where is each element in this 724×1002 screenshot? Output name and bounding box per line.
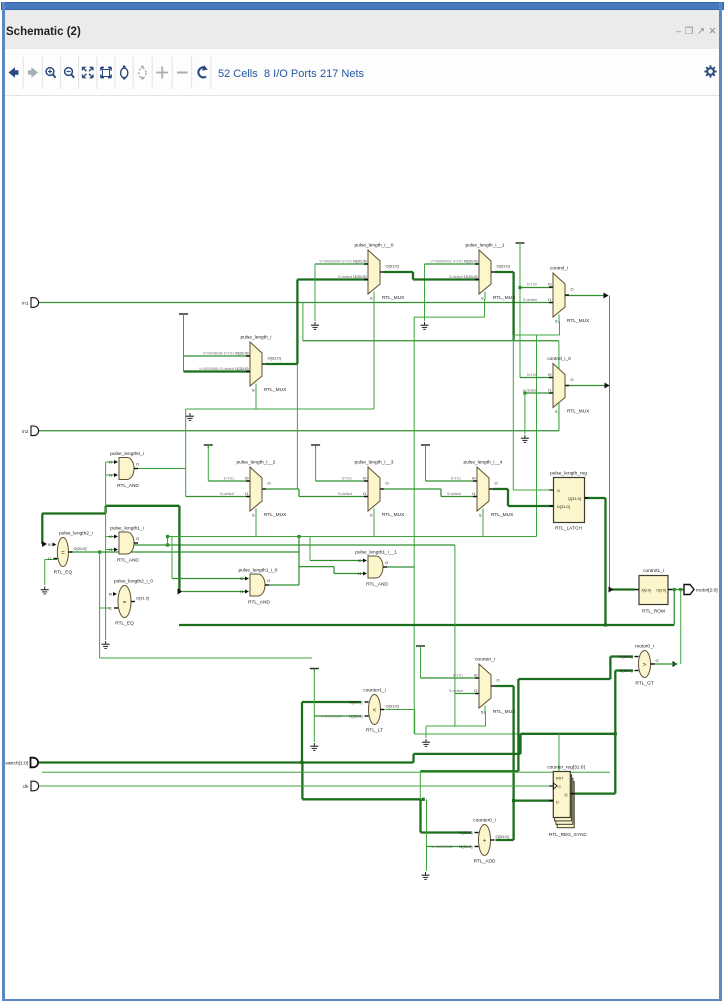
svg-text:pulse_length_i__1: pulse_length_i__1: [466, 243, 505, 249]
wire pulse_length_i__1 O bus: [495, 271, 514, 273]
wire LT I1: [314, 715, 361, 717]
junction arrow control_i_0 O: [605, 383, 610, 389]
wire x105.6 gnd drop: [105, 608, 107, 640]
wire S drop x513.3: [512, 335, 514, 490]
toolbar nets count text: [320, 68, 365, 80]
constant bar feeding pulse_length_i__4: [421, 445, 430, 448]
constant bar feeding pulse_length_i__2: [204, 445, 213, 448]
junction Q/bus y625: [604, 623, 607, 626]
svg-text:pulse_length2_i_0: pulse_length2_i_0: [114, 579, 153, 585]
svg-text:RTL_AND: RTL_AND: [248, 600, 270, 606]
wire const riser x425.5: [425, 445, 427, 481]
svg-text:O: O: [267, 578, 270, 583]
svg-text:in2: in2: [22, 429, 29, 435]
svg-text:I0[31:0]: I0[31:0]: [235, 351, 248, 356]
svg-text:I1: I1: [548, 388, 552, 393]
junction arrow GT O: [673, 661, 678, 667]
svg-text:O: O: [385, 560, 388, 565]
svg-text:O[31:0]: O[31:0]: [386, 704, 399, 709]
constant bar feeding counter_i: [416, 646, 425, 649]
wire clk horizontal: [37, 785, 553, 787]
wire step x299: [298, 489, 300, 497]
svg-text:S: S: [481, 710, 484, 715]
wire counter_reg Q out: [571, 792, 616, 794]
svg-text:pulse_length1_i__1: pulse_length1_i__1: [355, 550, 397, 556]
mux pulse_length_i__1: [430, 243, 516, 302]
wire mux1 S drop: [484, 299, 486, 317]
comparator motor0_i: [619, 644, 658, 687]
svg-text:RTL_MUX: RTL_MUX: [493, 709, 516, 715]
svg-text:control1_i: control1_i: [643, 568, 664, 574]
svg-text:S: S: [555, 409, 558, 414]
wire x302.4 down: [301, 763, 303, 800]
junction y799.3: [422, 798, 425, 801]
svg-text:S=1'b1: S=1'b1: [451, 477, 461, 481]
wire x99.6 drop: [99, 552, 101, 608]
svg-text:RTL_ADD: RTL_ADD: [474, 859, 496, 865]
wire pulse_length1_i I1 stub: [106, 549, 114, 551]
wire x297 riser row2: [296, 364, 298, 489]
wire pulse_length_i I1 bus: [184, 370, 251, 372]
wire control_i I0: [520, 287, 553, 289]
wire y536.5 long: [168, 536, 537, 538]
and-gate pulse_length1_i_0: [239, 568, 278, 606]
wire S row y317: [414, 316, 485, 318]
wire pulse_length_i S drop: [255, 387, 257, 410]
svg-text:pulse_length1_i: pulse_length1_i: [110, 526, 144, 532]
mux pulse_length_i__4: [447, 460, 514, 519]
wire long vertical x414: [413, 317, 415, 734]
constant bar feeding pulse_length_i__3: [311, 445, 320, 448]
svg-text:pulse_length_i__3: pulse_length_i__3: [355, 460, 394, 466]
svg-text:motor0_i: motor0_i: [635, 644, 654, 650]
svg-text:S=default: S=default: [338, 492, 352, 496]
wire x105.6 thin column: [105, 462, 107, 609]
svg-text:O: O: [268, 481, 271, 486]
toolbar autofit icon: [121, 65, 128, 79]
constant bar feeding LT I1: [310, 669, 319, 672]
svg-text:counter0_i: counter0_i: [473, 818, 495, 824]
rom control1_i: [635, 568, 672, 615]
register counter_reg[31:0]: [547, 765, 587, 839]
svg-text:I1: I1: [245, 491, 249, 496]
svg-text:<: <: [373, 707, 377, 714]
mux pulse_length_i__0: [319, 243, 405, 302]
wire y734 thin: [415, 733, 521, 735]
wire y772 long: [42, 771, 610, 773]
wire ADD I0: [421, 831, 472, 833]
wire control_i_0 S drop: [558, 412, 560, 431]
wire control_i O: [565, 295, 608, 297]
wire pulse_length0_i I0 stub: [106, 461, 114, 463]
wire y658 long: [100, 657, 312, 659]
svg-text:O[31:0]: O[31:0]: [496, 834, 509, 839]
wire pulse_length_i__2 O: [266, 488, 299, 490]
svg-text:RTL_REG_SYNC: RTL_REG_SYNC: [549, 832, 588, 838]
wire x172 stub: [171, 537, 173, 579]
wire main bus y625: [179, 624, 674, 626]
wire control_i_0 O: [565, 385, 609, 387]
toolbar cells count text: [218, 68, 258, 80]
port clk: [23, 781, 39, 791]
wire pulse_length_i__1 I0: [425, 263, 480, 265]
svg-text:RTL_AND: RTL_AND: [366, 582, 388, 588]
wire x99.3 riser: [99, 608, 101, 658]
svg-text:pulse_length_i__2: pulse_length_i__2: [237, 460, 276, 466]
wire control_i I1 stub segment: [549, 302, 553, 304]
wire control_i S drop: [559, 322, 561, 336]
mux control_i: [523, 266, 590, 325]
wire pulse_length_i__4 S: [482, 511, 484, 537]
svg-text:RTL_AND: RTL_AND: [117, 483, 139, 489]
wire pulse_length_i__3 O: [384, 488, 441, 490]
port motor[2:0]: [684, 585, 718, 595]
svg-text:I1: I1: [472, 491, 476, 496]
wire step x441: [440, 489, 442, 497]
svg-text:I1: I1: [363, 491, 367, 496]
junction ROM O a: [673, 588, 676, 591]
wire counter_i S: [485, 711, 487, 726]
svg-text:V=X00000X00 S=1'b1: V=X00000X00 S=1'b1: [319, 260, 352, 264]
svg-text:motor[2:0]: motor[2:0]: [696, 588, 718, 594]
svg-text:I0: I0: [548, 282, 552, 287]
svg-text:>: >: [643, 661, 647, 668]
wire pulse_length2_i I1 wire: [45, 559, 57, 561]
toolbar io ports count text: [264, 68, 317, 80]
wire counter_reg RST riser: [558, 734, 560, 772]
svg-text:I1: I1: [48, 556, 52, 561]
svg-text:S=1'b0: S=1'b0: [527, 283, 537, 287]
svg-text:I0: I0: [548, 372, 552, 377]
svg-text:I1[31:0]: I1[31:0]: [464, 274, 477, 279]
svg-text:I1[31:0]: I1[31:0]: [353, 274, 366, 279]
svg-text:O: O: [495, 481, 498, 486]
junction arrow pulse_length2_i I0: [42, 541, 47, 547]
svg-text:Q[31:0]: Q[31:0]: [568, 496, 581, 501]
wire pulse_length_i O bus: [266, 363, 297, 365]
svg-text:S=default: S=default: [523, 298, 537, 302]
wire drop x674.2 to bus: [673, 590, 675, 626]
mux counter_i: [449, 657, 516, 716]
svg-text:V=X0000A2A7: V=X0000A2A7: [321, 715, 343, 719]
svg-text:I0[31:0]: I0[31:0]: [349, 700, 362, 705]
wire S row y409: [186, 408, 374, 410]
wire drop x680.7: [680, 590, 682, 665]
wire pulse_length1_i__1 I0: [310, 560, 363, 562]
svg-text:O[31:0]: O[31:0]: [136, 596, 149, 601]
wire x518.4 up: [517, 679, 519, 771]
mux control_i_0: [523, 356, 590, 415]
wire GT I0 feed: [610, 655, 633, 657]
svg-text:counter1_i: counter1_i: [363, 688, 385, 694]
svg-text:O[31:0]: O[31:0]: [497, 264, 510, 269]
ground below LT I1: [310, 743, 318, 750]
wire step x334: [333, 567, 335, 574]
wire bus to pulse_length_i__0 I1: [297, 278, 368, 280]
wire ADD I0 drop: [419, 799, 421, 832]
wire Q net vertical x615.3: [614, 671, 616, 794]
wire GT I1 feed: [615, 669, 633, 671]
wire bus drop x42: [41, 514, 43, 545]
ground below pulse_length_i__1 I0: [421, 322, 429, 329]
wire bus to latch D: [508, 505, 554, 507]
toolbar zoom-out icon: [65, 68, 75, 78]
constant bar feeding pulse_length_i: [179, 314, 188, 317]
wire const riser x208.3: [207, 445, 209, 481]
junction a y536.5: [166, 535, 169, 538]
wire pulse_length_i__2 S: [255, 511, 257, 537]
svg-text:S: S: [479, 513, 482, 518]
wire riser x302.9: [302, 303, 304, 341]
toolbar settings gear icon: [704, 65, 716, 77]
svg-text:RTL_MUX: RTL_MUX: [567, 318, 590, 324]
wire Q branch y733.8: [521, 733, 616, 735]
wire pulse_length_i I0: [184, 355, 251, 357]
ground near x188 y414: [186, 413, 194, 420]
window top blue bar: [1, 2, 724, 10]
wire bus A y505.8: [106, 505, 180, 507]
junction arrow ROM A feed: [609, 587, 614, 593]
svg-text:I1[31:0]: I1[31:0]: [619, 668, 632, 673]
and-gate pulse_length1_i: [109, 526, 144, 564]
svg-text:S: S: [252, 388, 255, 393]
svg-text:RST: RST: [556, 777, 564, 781]
toolbar zoom-in icon: [46, 68, 56, 78]
wire pulse_length_i__4 O bus: [493, 488, 508, 490]
junction switch x302: [300, 761, 303, 764]
svg-text:pulse_length1_i_0: pulse_length1_i_0: [239, 568, 278, 574]
svg-text:O[31:0]: O[31:0]: [386, 264, 399, 269]
svg-text:O: O: [571, 287, 574, 292]
svg-text:RTL_MUX: RTL_MUX: [493, 295, 516, 301]
wire pulse_length1_i I0 stub: [106, 536, 114, 538]
wire pulse_length1_i_0 I1: [183, 591, 246, 593]
svg-text:I1[31:0]: I1[31:0]: [459, 844, 472, 849]
svg-text:C: C: [559, 785, 562, 789]
wire x167.5 stub: [167, 537, 169, 546]
wire bus B y513.5: [42, 512, 106, 514]
svg-text:S=1'b0: S=1'b0: [527, 373, 537, 377]
svg-text:pulse_length_i__4: pulse_length_i__4: [464, 460, 503, 466]
svg-text:I1: I1: [474, 688, 478, 693]
svg-text:O: O: [136, 462, 139, 467]
svg-text:S=default: S=default: [523, 389, 537, 393]
wire latch Q bus: [585, 497, 606, 499]
svg-text:S=default: S=default: [447, 492, 461, 496]
svg-text:pulse_length_reg: pulse_length_reg: [550, 471, 587, 477]
wire y566.6: [299, 566, 334, 568]
svg-text:I0[31:0]: I0[31:0]: [619, 654, 632, 659]
svg-text:V=X000DB64 S=default: V=X000DB64 S=default: [199, 367, 234, 371]
wire drop x558.9: [558, 341, 560, 431]
adder counter0_i: [432, 818, 509, 865]
svg-text:I0[31:0]: I0[31:0]: [353, 259, 366, 264]
wire LT I0 bus: [302, 701, 361, 703]
wire switch bus: [37, 761, 414, 763]
svg-text:A[3:0]: A[3:0]: [642, 588, 651, 592]
wire const riser x315.6: [315, 445, 317, 481]
toolbar separators: [23, 57, 211, 89]
wire pulse_length_i__0 O bus: [384, 271, 413, 273]
wire pulse_length_i__0 I0: [315, 263, 368, 265]
wire riser x299: [298, 537, 300, 586]
wire gnd riser x315: [314, 264, 316, 321]
toolbar forward arrow icon: [28, 67, 38, 78]
svg-text:pulse_length_i__0: pulse_length_i__0: [355, 243, 394, 249]
wire Q branch down x520.5: [519, 734, 521, 754]
wire LT I1 riser: [313, 669, 315, 743]
wire const riser x420.5: [420, 646, 422, 678]
port in1: [22, 298, 39, 308]
wire pulse_length2_i_0 I1 feed: [100, 607, 110, 609]
svg-text:RTL_MUX: RTL_MUX: [264, 387, 287, 393]
comparator pulse_length2_i_0: [109, 579, 154, 627]
junction x513.6 y800.6: [512, 799, 515, 802]
svg-text:pulse_length2_i: pulse_length2_i: [59, 531, 93, 537]
wire vertical net x609.5: [609, 296, 611, 590]
svg-text:O: O: [136, 536, 139, 541]
wire counter_i O bus: [495, 685, 514, 687]
window left border: [2, 2, 5, 999]
wire y726: [426, 725, 486, 727]
wire const riser x183.5: [183, 314, 185, 372]
svg-text:I0: I0: [363, 476, 367, 481]
svg-text:I0: I0: [48, 542, 52, 547]
svg-text:pulse_length0_i: pulse_length0_i: [110, 451, 144, 457]
svg-text:I0: I0: [109, 592, 113, 597]
wire bus down x513.6: [512, 272, 514, 341]
wire bus step x508: [507, 489, 509, 506]
svg-text:O[31:0]: O[31:0]: [268, 356, 281, 361]
ground below counter_i: [422, 739, 430, 746]
svg-text:Q: Q: [564, 792, 567, 797]
ground below pulse_length2_i_0 I1: [102, 641, 110, 648]
svg-text:RTL_AND: RTL_AND: [117, 558, 139, 564]
svg-text:RTL_MUX: RTL_MUX: [567, 409, 590, 415]
svg-text:I0[31:0]: I0[31:0]: [464, 259, 477, 264]
svg-text:=: =: [123, 599, 127, 606]
wire x610.4 up: [609, 657, 611, 680]
svg-text:RTL_EQ: RTL_EQ: [115, 621, 134, 627]
and-gate pulse_length0_i: [109, 451, 144, 489]
port switch[1:0]: [5, 758, 38, 768]
wire ROM O to port: [668, 589, 684, 591]
wire S bridge y335: [513, 334, 559, 336]
mux pulse_length_i: [199, 335, 287, 394]
junction control_i_0 I1: [523, 391, 526, 394]
comparator pulse_length2_i: [48, 531, 93, 576]
svg-text:RTL_MUX: RTL_MUX: [382, 295, 405, 301]
wire ADD I1: [427, 846, 472, 848]
svg-text:control_i_0: control_i_0: [547, 356, 571, 362]
toolbar fit-selection icon: [101, 67, 111, 77]
wire in1 to control_i I1 (horizontal): [37, 302, 549, 304]
wire GT O: [651, 663, 678, 665]
svg-text:O: O: [571, 377, 574, 382]
svg-text:I1: I1: [109, 606, 113, 611]
wire step x413.5: [412, 754, 414, 763]
junction arrow pulse_length1_i_0 I1: [178, 589, 183, 595]
wire gnd riser x424.5: [424, 264, 426, 321]
toolbar minus icon: [177, 72, 188, 74]
window right border: [719, 2, 722, 999]
wire riser x297.4 bus: [296, 280, 298, 365]
svg-text:S: S: [555, 319, 558, 324]
junction control_i I0: [518, 286, 521, 289]
svg-text:D[31:0]: D[31:0]: [557, 504, 570, 509]
and-gate pulse_length1_i__1: [355, 550, 397, 588]
wire y799.3 bus: [302, 798, 420, 800]
svg-text:O: O: [656, 658, 659, 663]
svg-text:S: S: [370, 513, 373, 518]
svg-text:RTL_LATCH: RTL_LATCH: [555, 526, 583, 532]
wire control_i_0 I0: [520, 377, 553, 379]
svg-text:I0[31:0]: I0[31:0]: [459, 830, 472, 835]
svg-text:=: =: [61, 549, 65, 556]
svg-text:D: D: [556, 801, 559, 805]
wire pulse_length0_i O: [135, 468, 187, 470]
junction Q net y733.8: [614, 732, 617, 735]
wire pulse_length1_i__1 I1: [334, 573, 363, 575]
svg-text:counter_i: counter_i: [475, 657, 495, 663]
comparator counter1_i: [321, 688, 399, 734]
svg-text:O: O: [497, 678, 500, 683]
junction arrow control_i O: [604, 293, 609, 299]
svg-text:S: S: [252, 513, 255, 518]
wire reg D feed: [514, 799, 554, 801]
wire pulse_length1_i O: [135, 544, 455, 546]
svg-text:O[31:0]: O[31:0]: [73, 546, 86, 551]
wire pulse_length_i__2 I0: [208, 480, 250, 482]
wire bus y341: [303, 340, 559, 342]
latch pulse_length_reg: [550, 471, 589, 532]
toolbar autofit-off icon: [139, 65, 146, 79]
wire y753.9 bus: [414, 753, 521, 755]
svg-text:+: +: [483, 837, 487, 844]
svg-text:I1[31:0]: I1[31:0]: [235, 366, 248, 371]
wire to pulse_length_i__4 I1: [441, 496, 477, 498]
mux pulse_length_i__2: [220, 460, 287, 519]
wire to pulse_length_i__3 I1: [299, 496, 368, 498]
ground below pulse_length2_i: [41, 587, 49, 594]
svg-text:S=default: S=default: [220, 492, 234, 496]
svg-text:RTL_MUX: RTL_MUX: [491, 512, 514, 518]
title bar: [5, 10, 719, 49]
svg-text:S: S: [370, 296, 373, 301]
svg-text:S=1'b1: S=1'b1: [453, 674, 463, 678]
svg-text:RTL_MUX: RTL_MUX: [382, 512, 405, 518]
svg-text:RTL_GT: RTL_GT: [635, 681, 653, 687]
junction ROM O b: [679, 588, 682, 591]
wire bus step x413: [412, 272, 414, 280]
svg-text:I1[31:0]: I1[31:0]: [349, 714, 362, 719]
toolbar: [5, 49, 719, 96]
wire latch G feed: [513, 489, 553, 491]
wire LT O: [386, 709, 415, 711]
svg-text:S=1'b1: S=1'b1: [224, 477, 234, 481]
svg-text:switch[1:0]: switch[1:0]: [5, 761, 28, 767]
wire ADD O: [496, 839, 514, 841]
svg-text:pulse_length_i: pulse_length_i: [241, 335, 272, 341]
wire const riser x520: [519, 243, 521, 378]
ground below control_i_0 I1: [521, 435, 529, 442]
svg-text:V=X00000001: V=X00000001: [432, 845, 453, 849]
svg-text:S=default: S=default: [338, 275, 352, 279]
toolbar plus icon: [156, 67, 168, 79]
wire long vertical x536.5: [536, 335, 538, 537]
wire counter_i I1: [455, 693, 479, 695]
junction y545: [166, 543, 169, 546]
